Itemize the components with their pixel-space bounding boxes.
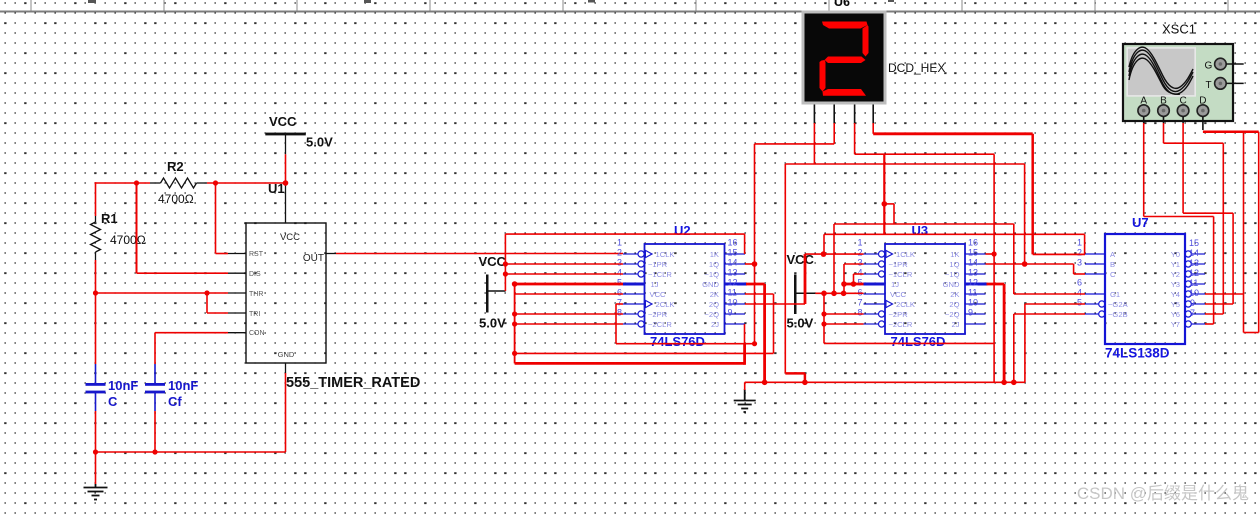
display pins — [814, 105, 873, 125]
wire U3 VCC pin row — [815, 292, 863, 294]
svg-text:Y5: Y5 — [1171, 300, 1180, 309]
scope screen — [1127, 48, 1195, 96]
svg-text:7: 7 — [1190, 308, 1195, 318]
display frame — [802, 11, 887, 105]
wire display A column (left of U3) — [784, 164, 786, 373]
wire U2 GND column thick — [763, 284, 766, 382]
wire U3 ~1PR drop — [843, 264, 845, 293]
wire U7 ~G2A drop to ground — [1024, 304, 1026, 382]
wire C/1K column down to ground rail — [993, 154, 995, 382]
wire U7 G1 riser — [1013, 224, 1015, 294]
U1 inner labels — [278, 232, 324, 359]
wire OUT to U2 1CLK — [336, 253, 623, 255]
clipped label fragment — [364, 0, 371, 3]
scope terminals A B C D — [1140, 96, 1206, 107]
wire U3 GND pin thick — [987, 283, 1005, 286]
wire U3 ~1CLR drop — [853, 274, 855, 284]
wire CON down to Cf — [154, 333, 156, 364]
wire TRI pin — [207, 312, 228, 314]
wire to U7 C pin — [1074, 273, 1085, 275]
svg-text:Y3: Y3 — [1171, 280, 1180, 289]
wire scope A east — [1144, 216, 1214, 218]
wire scope D to Y4 column — [1243, 132, 1245, 333]
ic U2 74LS76D — [617, 238, 747, 335]
digit 2 segment d (bottom) — [823, 89, 867, 96]
wire RST pin — [216, 253, 229, 255]
svg-text:DCD_HEX: DCD_HEX — [888, 61, 945, 75]
wire U3 ~2PR pin — [824, 313, 864, 315]
junction dots U2 area — [503, 251, 827, 356]
svg-text:C: C — [108, 394, 118, 409]
svg-text:GND: GND — [278, 350, 295, 359]
wire ground rail — [745, 381, 1025, 383]
wire to U2 ~1CLR — [505, 273, 623, 275]
wire R2 right to U1 VCC node — [207, 182, 286, 184]
U1 pin stubs — [228, 254, 336, 374]
wire thick VCC to 1K run (bottom) — [515, 362, 745, 365]
svg-text:Cf: Cf — [168, 394, 182, 409]
scope waveforms — [1129, 47, 1193, 94]
wire 1Q feedback run under U2 — [616, 343, 755, 345]
clipped label fragment — [88, 0, 96, 3]
wire jog to U7 C — [1073, 264, 1075, 274]
svg-text:74LS76D: 74LS76D — [650, 334, 705, 349]
wire C bottom — [95, 411, 97, 484]
svg-text:RST: RST — [249, 251, 264, 258]
wire display D column thick — [1031, 134, 1034, 255]
svg-text:U3: U3 — [912, 223, 929, 238]
wire VCC column left of U2 — [504, 234, 506, 291]
svg-text:XSC1: XSC1 — [1162, 22, 1196, 37]
wire THR node down to C — [95, 293, 97, 364]
wire U3 ~1CLR pin — [854, 273, 864, 275]
svg-text:~G2A: ~G2A — [1108, 300, 1129, 309]
wire A column elbow thick — [785, 372, 805, 375]
wire jog drop to VCC run — [893, 204, 895, 224]
wire U3 1Q east run to U7 — [986, 263, 1074, 265]
svg-text:6: 6 — [1077, 278, 1082, 288]
wire U7 ~G2B drop to ground — [1013, 314, 1015, 382]
wire ground stem — [744, 382, 746, 390]
digit 2 segment b (top right) — [863, 25, 869, 57]
wire U2 2CLK stub link — [616, 303, 623, 305]
svg-text:Y6: Y6 — [1171, 310, 1180, 319]
wire scope A black stub — [1143, 117, 1145, 124]
wire thick 1K riser — [743, 344, 746, 365]
svg-text:THR: THR — [249, 291, 263, 298]
wire U2 2K pin — [745, 293, 774, 295]
wire VCC top run to U7 G1 — [834, 223, 1014, 225]
wire link from display A run down to 1Q run — [1024, 164, 1026, 264]
wire U3 1K pin — [986, 253, 995, 255]
svg-text:R1: R1 — [101, 211, 118, 226]
wire scope C drop — [1182, 123, 1184, 213]
wire scope C black stub — [1182, 117, 1184, 124]
wire display pin A drop — [813, 123, 815, 164]
svg-text:CSDN @后缀是什么鬼: CSDN @后缀是什么鬼 — [1077, 484, 1249, 503]
wire VCC column 2 left of U2 — [514, 284, 516, 363]
svg-text:VCC: VCC — [269, 114, 297, 129]
wire run under U3 — [824, 342, 994, 344]
wire U2 2CLK column down — [615, 304, 617, 344]
svg-text:5.0V: 5.0V — [479, 316, 506, 331]
wire display pin A run — [785, 163, 1024, 165]
wire U3 ~2CLR pin — [824, 323, 864, 325]
wire Y6 pin — [1205, 313, 1223, 315]
svg-text:Y1: Y1 — [1171, 260, 1180, 269]
svg-text:12: 12 — [1189, 268, 1199, 278]
svg-text:CON: CON — [249, 330, 265, 337]
svg-text:TRI: TRI — [249, 311, 260, 318]
svg-text:Y4: Y4 — [1171, 290, 1180, 299]
U7 right pin stubs with bubbles — [1185, 251, 1205, 327]
digit 2 segment e (bottom left) — [820, 60, 826, 92]
wire U2 GND pin thick — [746, 283, 765, 286]
svg-text:VCC: VCC — [479, 254, 507, 269]
wire to U2 1J (thick) — [515, 283, 623, 286]
svg-text:14: 14 — [1189, 248, 1199, 258]
wire to U2 VCC pin — [515, 293, 623, 295]
wire Y5 pin — [1205, 303, 1233, 305]
U7 right pin numbers — [1189, 238, 1199, 318]
wire 2Q riser thick — [804, 254, 807, 304]
wire U7 ~G2B pin — [1014, 313, 1085, 315]
U1 VCC pin stub (black) — [285, 184, 287, 224]
wire THR row — [96, 292, 229, 294]
wire display-B horizontal — [755, 143, 835, 145]
wire U3 preset column — [823, 293, 825, 343]
wire to U2 ~2PR — [515, 313, 623, 315]
ground (center) — [734, 389, 756, 412]
svg-text:U2: U2 — [674, 223, 691, 238]
svg-text:VCC: VCC — [280, 232, 300, 243]
clipped label fragment — [588, 0, 595, 3]
wire to U2 ~2CLR — [515, 323, 623, 325]
capacitor C — [86, 364, 139, 411]
svg-text:74LS138D: 74LS138D — [1105, 346, 1170, 361]
wire U7 ~G2A pin — [1025, 303, 1085, 305]
wire right-edge bottom link — [1244, 332, 1259, 334]
svg-text:5.0V: 5.0V — [306, 135, 333, 150]
wire display D to U7 A — [1033, 253, 1085, 255]
wire Cf bottom — [154, 411, 156, 452]
power symbol VCC (U3 supply) — [787, 252, 816, 331]
wire U2 2K column — [773, 294, 775, 353]
junction dot U3 1Q node — [1022, 261, 1028, 267]
op 555 timer U1 box — [246, 223, 326, 363]
svg-text:~G2B: ~G2B — [1108, 310, 1128, 319]
junction dots ground rail — [762, 380, 1017, 386]
wire CON pin — [155, 332, 228, 334]
svg-text:OUT: OUT — [303, 253, 324, 264]
junction dot 1K column — [992, 251, 997, 256]
resistor R1 — [91, 211, 146, 260]
svg-text:10nF: 10nF — [108, 378, 138, 393]
svg-text:Y7: Y7 — [1171, 320, 1180, 329]
ic U3 74LS76D — [857, 238, 987, 335]
svg-text:Y2: Y2 — [1171, 270, 1180, 279]
wire display pin C drop — [854, 123, 856, 154]
junction dots 555 section — [93, 180, 288, 454]
digit 2 segment a (top) — [822, 22, 868, 29]
wire U3 GND column thick — [1003, 284, 1006, 382]
power symbol VCC (U1 supply) — [265, 114, 333, 150]
svg-text:11: 11 — [1189, 278, 1198, 288]
svg-text:B: B — [1110, 260, 1115, 269]
wire scope A drop — [1143, 123, 1145, 217]
svg-text:3: 3 — [1077, 258, 1082, 268]
wire jog east at C column — [884, 203, 894, 205]
U7 left pin numbers — [1077, 238, 1082, 308]
svg-text:G1: G1 — [1110, 290, 1120, 299]
scope body — [1123, 44, 1233, 121]
display black face — [805, 14, 884, 102]
svg-text:4: 4 — [1077, 288, 1082, 298]
ic U7 74LS138D body — [1105, 234, 1185, 344]
wire DIS pin — [137, 272, 229, 274]
wire display D thick run east — [873, 132, 1032, 135]
wire scope B to Y6 column — [1222, 143, 1224, 314]
svg-text:74LS76D: 74LS76D — [891, 334, 946, 349]
svg-text:10: 10 — [1189, 288, 1199, 298]
wire R1 top lead — [95, 182, 97, 216]
wire display pin C east — [855, 153, 995, 155]
wire VCC symbol stub (black) — [285, 135, 287, 154]
wire VCC net top run over U2 — [505, 233, 744, 235]
svg-text:5: 5 — [1077, 298, 1082, 308]
wire U2 2J corner down — [744, 324, 746, 344]
wire down to RST — [215, 182, 217, 253]
wire VCC to 2K run — [515, 352, 774, 354]
wires of 555 section (red) — [95, 182, 623, 484]
wire display-B column through U2 1Q — [754, 144, 756, 344]
top ruler divider line — [0, 11, 1260, 13]
svg-text:R2: R2 — [167, 159, 184, 174]
svg-text:5.0V: 5.0V — [787, 316, 814, 331]
wire down to DIS — [136, 183, 138, 273]
junction dots U3 area — [821, 201, 887, 327]
wire scope D thick east — [1203, 131, 1259, 134]
clipped label fragment — [888, 0, 894, 2]
svg-text:10nF: 10nF — [168, 378, 198, 393]
svg-text:555_TIMER_RATED: 555_TIMER_RATED — [286, 375, 420, 391]
capacitor Cf — [145, 364, 198, 411]
resistor R2 — [150, 159, 207, 206]
wire U2 1K pin down from top run — [744, 234, 746, 254]
wire Y4 pin — [1205, 293, 1244, 295]
wire right-edge column — [1258, 132, 1260, 333]
wire U7 G1 pin — [1014, 293, 1085, 295]
svg-text:1: 1 — [1077, 238, 1082, 248]
wire scope D black stub — [1202, 117, 1204, 131]
svg-text:15: 15 — [1189, 238, 1199, 248]
wire display C column — [883, 154, 885, 234]
wire elbow drop — [804, 373, 807, 382]
wire display pin B drop — [833, 123, 835, 144]
svg-text:DIS: DIS — [249, 271, 261, 278]
wire display pin D drop — [872, 123, 874, 134]
U7 pin labels — [1108, 250, 1129, 319]
wire down to TRI — [206, 293, 208, 313]
svg-text:Y0: Y0 — [1171, 250, 1180, 259]
wire scope B east — [1164, 142, 1224, 144]
wire U3 ~1PR pin — [844, 263, 864, 265]
ruler tick marks — [31, 0, 1228, 11]
wire R1 bottom to THR node — [95, 260, 97, 293]
wire VCC to R2 node (red) — [285, 154, 287, 183]
wire Y7 pin — [1205, 323, 1214, 325]
wire node R1/R2 top — [95, 182, 150, 184]
svg-text:2: 2 — [1077, 248, 1082, 258]
wire scope C to Y5 column — [1232, 213, 1234, 304]
wire U2 1Q pin link — [745, 263, 755, 265]
wire ground bus — [96, 451, 286, 453]
svg-text:4700Ω: 4700Ω — [158, 192, 194, 206]
wire U1 GND down — [285, 373, 287, 452]
wire scope C east — [1183, 212, 1233, 214]
wire scope B black stub — [1163, 117, 1165, 124]
wire VCC riser right of display — [833, 224, 835, 293]
svg-text:U6: U6 — [834, 0, 850, 9]
svg-text:T: T — [1206, 80, 1212, 91]
wire U7 A riser — [1084, 234, 1086, 254]
svg-text:G: G — [1205, 61, 1213, 72]
svg-text:13: 13 — [1189, 258, 1199, 268]
wire U3 1CLK top run to U7 A — [824, 233, 1085, 235]
wire U3 1CLK riser — [823, 234, 825, 254]
wire scope B drop — [1163, 123, 1165, 143]
wire scope A to Y7 column — [1213, 217, 1215, 325]
ground (left) — [84, 484, 108, 500]
digit 2 segment g (middle) — [825, 57, 866, 64]
svg-text:4700Ω: 4700Ω — [110, 233, 146, 247]
U7 left pin stubs — [1085, 254, 1105, 317]
svg-text:C: C — [1110, 270, 1116, 279]
power symbol VCC (U2 supply) — [479, 254, 507, 331]
wire U3 1J thick — [843, 283, 864, 286]
wire U2 2Q east run — [745, 303, 805, 305]
svg-text:9: 9 — [1190, 298, 1195, 308]
wire to U2 ~1PR — [505, 263, 623, 265]
wire 2Q to U3 1CLK — [805, 253, 864, 255]
